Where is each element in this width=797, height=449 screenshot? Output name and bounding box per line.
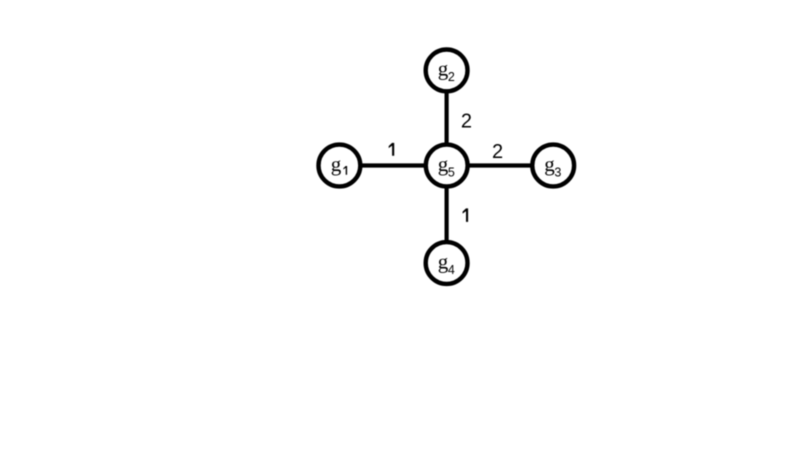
svg-text:2: 2 (461, 110, 472, 132)
svg-text:2: 2 (492, 141, 503, 163)
svg-text:g: g (331, 152, 342, 176)
